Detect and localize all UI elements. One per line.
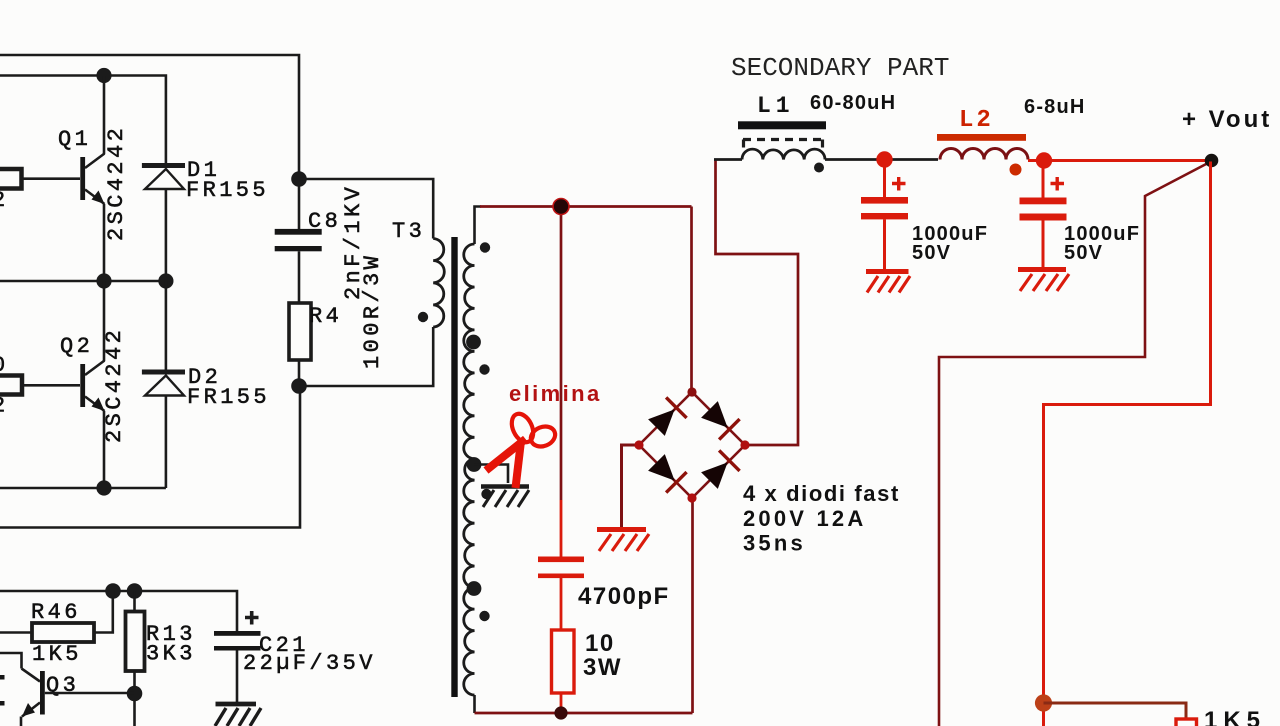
diode bridge D-UL	[648, 397, 687, 436]
wire Q1 collector	[103, 76, 106, 155]
svg-text:4700pF: 4700pF	[578, 583, 670, 610]
node output junction	[1035, 694, 1052, 711]
node snubber top junction	[291, 171, 307, 187]
wire T3 secondary top lead	[475, 207, 482, 245]
resistor R46	[32, 623, 94, 642]
resistor R13	[126, 612, 145, 672]
node T3 secondary phase dot 2	[479, 364, 489, 374]
svg-text:35ns: 35ns	[743, 531, 806, 556]
svg-text:50V: 50V	[1064, 242, 1103, 264]
svg-text:60-80uH: 60-80uH	[810, 92, 896, 114]
wire snubber branch vertical	[560, 207, 563, 501]
node Q1 collector junction	[96, 68, 111, 83]
wire junction to T3 primary top	[299, 179, 433, 239]
svg-text:FR155: FR155	[187, 385, 270, 410]
svg-text:1K5: 1K5	[32, 642, 82, 667]
ground (capacitor A)	[866, 272, 910, 293]
wire D2 anode to emitter rail	[165, 396, 168, 489]
svg-text:100R/3W: 100R/3W	[360, 253, 385, 369]
wire top rail to C8/T3 branch	[0, 55, 299, 179]
wire Q1 base	[22, 177, 81, 180]
wire to load resistor	[1044, 703, 1187, 719]
wire Q1 emitter	[103, 204, 106, 281]
transistor Q2	[80, 361, 104, 412]
node T3 primary phase dot	[418, 312, 428, 322]
svg-text:22µF/35V: 22µF/35V	[243, 651, 376, 676]
transformer T3 primary winding	[433, 239, 444, 328]
wire R13 bottom lead	[133, 671, 136, 726]
node bridge bottom corner	[687, 493, 696, 502]
wire R13 top lead	[133, 591, 136, 612]
node R46 junction	[105, 583, 121, 599]
wire bridge left corner to ground	[622, 445, 640, 527]
wire bottom return rail	[0, 386, 300, 528]
wire Q3 emitter	[20, 717, 23, 726]
resistor R4	[289, 303, 311, 360]
wire D2 cathode	[165, 281, 168, 372]
svg-text:T3: T3	[392, 219, 425, 244]
node secondary top junction	[553, 199, 569, 215]
node L1/C junction	[876, 151, 892, 167]
wire secondary top rail	[480, 205, 692, 208]
node T3 secondary tap 3	[467, 581, 482, 596]
wire supply rail lower-left	[0, 591, 237, 631]
scissors (cut mark)	[486, 410, 558, 488]
wire T3 secondary bottom lead	[473, 695, 476, 713]
svg-text:3K3: 3K3	[146, 642, 196, 667]
svg-text:+ Vout: + Vout	[1182, 106, 1272, 133]
svg-text:SECONDARY PART: SECONDARY PART	[731, 53, 949, 83]
svg-text:4 x diodi fast: 4 x diodi fast	[743, 481, 900, 506]
wire Q3 collector	[0, 653, 22, 669]
diode bridge D-LL	[648, 454, 687, 493]
wire bottom rail secondary	[475, 712, 693, 715]
resistor Q2 base (edge)	[0, 376, 22, 395]
wire R4 bottom to junction	[298, 360, 301, 386]
ground (bridge negative)	[597, 530, 649, 552]
wire Q2 emitter	[103, 411, 106, 488]
svg-text:elimina: elimina	[509, 381, 602, 406]
node T3 secondary phase dot 3	[481, 489, 491, 499]
node Q2 emitter junction	[96, 480, 111, 495]
ground (C21)	[215, 704, 261, 726]
svg-text:6-8uH: 6-8uH	[1024, 96, 1086, 118]
wire L2 to Vout	[1028, 159, 1209, 162]
svg-text:L2: L2	[959, 107, 994, 134]
wire D1 anode	[165, 189, 168, 281]
wire emitter rail Q2	[0, 487, 166, 490]
ground (capacitor B)	[1018, 270, 1069, 292]
node T3 secondary tap 1	[466, 335, 481, 350]
capacitor 1000uF B	[1020, 161, 1067, 268]
svg-text:50V: 50V	[912, 242, 951, 264]
node bridge left corner	[634, 440, 643, 449]
node L2/C junction	[1036, 152, 1052, 168]
wire R46 left lead	[0, 631, 32, 634]
capacitor C21	[214, 611, 261, 702]
transformer T3 secondary winding	[464, 244, 475, 695]
wire Vout output run (bright)	[1044, 162, 1211, 726]
inductor L1	[738, 121, 826, 172]
node T3 secondary phase dot 4	[479, 611, 489, 621]
wire emitter rail Q1	[0, 280, 166, 283]
wire Vout to output return (diagonal)	[939, 163, 1209, 726]
node snubber bottom junction	[291, 378, 307, 394]
wire R46 right lead	[94, 591, 113, 633]
node T3 secondary tap 2 (elimina)	[467, 457, 482, 472]
diode D1	[142, 166, 185, 190]
node bridge top corner	[687, 387, 696, 396]
node T3 secondary phase dot 1	[480, 242, 490, 252]
svg-text:2: 2	[0, 188, 9, 213]
diode bridge D-UR	[701, 401, 740, 440]
node + Vout	[1205, 154, 1219, 168]
ground (elimina tap)	[481, 487, 529, 508]
wire top rail to bridge top	[690, 207, 693, 393]
wire resistor to bottom rail	[560, 693, 563, 713]
wire junction to T3 primary bottom	[299, 327, 433, 386]
wire snubber branch lower	[560, 500, 563, 557]
resistor 1K5 (load)	[1176, 719, 1197, 726]
node D1-D2 junction	[158, 273, 173, 288]
wire Q3 base	[45, 692, 135, 695]
capacitor 1000uF A	[861, 160, 908, 270]
svg-text:L1: L1	[757, 93, 795, 119]
svg-text:2SC4242: 2SC4242	[102, 327, 127, 443]
capacitor C8	[275, 179, 322, 303]
node left edge mark 2	[0, 701, 5, 706]
inductor L2	[937, 134, 1028, 176]
svg-text:FR155: FR155	[186, 178, 269, 203]
node R13/Q3 base junction	[127, 686, 143, 702]
wire bridge diamond edges	[639, 392, 745, 498]
wire elimina tap to ground	[474, 465, 508, 484]
wire L1 to L2	[825, 158, 938, 161]
capacitor 4700pF	[538, 557, 584, 579]
svg-text:C8: C8	[308, 209, 341, 234]
wire bridge right corner to L1 (DC+ path)	[716, 160, 799, 445]
node snubber bottom junction	[554, 706, 567, 719]
svg-text:2: 2	[0, 394, 9, 419]
svg-text:3W: 3W	[583, 654, 622, 681]
wire bottom rail to bridge bottom	[691, 498, 694, 713]
svg-text:Q1: Q1	[58, 127, 91, 152]
wire L1 left lead	[714, 158, 742, 161]
diode bridge D-LR	[701, 450, 740, 489]
transformer T3 core	[451, 237, 457, 697]
resistor Q1 base (edge)	[0, 169, 22, 189]
transistor Q1	[80, 154, 104, 205]
svg-text:R46: R46	[31, 600, 81, 625]
svg-text:10: 10	[585, 630, 615, 657]
svg-text:R4: R4	[309, 304, 342, 329]
svg-text:Q2: Q2	[60, 334, 93, 359]
wire cap to resistor	[560, 578, 563, 630]
wire Q2 collector	[103, 281, 106, 361]
svg-text:1K5: 1K5	[1204, 707, 1266, 726]
resistor 10 3W	[552, 630, 575, 693]
svg-text:200V 12A: 200V 12A	[743, 506, 866, 531]
node bridge right corner	[740, 440, 749, 449]
node R13 junction	[127, 583, 143, 599]
transistor Q3	[22, 669, 45, 717]
svg-text:0: 0	[0, 353, 9, 378]
diode D2	[142, 372, 185, 396]
node left edge mark 1	[0, 675, 5, 680]
svg-text:2SC4242: 2SC4242	[104, 125, 129, 241]
node Q1 emitter junction	[96, 273, 111, 288]
wire collector rail Q1/D1	[0, 76, 166, 164]
wire Q2 base	[22, 384, 80, 387]
